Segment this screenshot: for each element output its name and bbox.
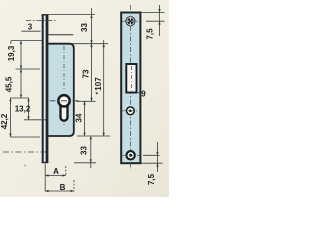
extension line stem bottom	[24, 119, 46, 121]
dim line 33 bottom (x=90.8)	[90, 136, 92, 168]
scan speck	[96, 92, 99, 94]
dim line 7.5 bottom	[157, 142, 159, 172]
dim line 34 (x=84.5)	[84, 101, 86, 136]
9 leader line	[137, 92, 142, 94]
right 7.5 bottom: extension lines	[143, 154, 160, 156]
svg-text:7,5: 7,5	[147, 173, 156, 185]
arrows left view dims	[90, 15, 92, 18]
top fixing hole centerline through faceplate (dash-dot)	[26, 20, 57, 22]
B dimension	[45, 190, 74, 192]
svg-text:19,3: 19,3	[7, 45, 16, 61]
case inner top edge (thin line above case top)	[47, 34, 74, 36]
extension line faceplate bottom right	[74, 162, 96, 164]
extension line y69 left (19.3 end)	[16, 68, 41, 70]
faceplate rear line	[46, 15, 49, 164]
euro cylinder profile (keyhole)	[57, 94, 71, 108]
top hole h-centerline	[122, 20, 139, 22]
dim line 107 (x=103.5)	[103, 40, 105, 136]
bottom fixing hole centerline through faceplate (dash-dot)	[3, 151, 46, 153]
svg-text:3: 3	[28, 22, 33, 31]
svg-text:107: 107	[94, 77, 103, 91]
extension line case bottom right	[77, 135, 110, 137]
extension line case top left	[11, 40, 43, 42]
extension line cylinder center right	[76, 100, 96, 102]
light strip above case top	[48, 36, 72, 43]
svg-text:9: 9	[141, 90, 146, 99]
right 7.5 top: extension lines	[141, 12, 165, 14]
dim line 33/73 (x=92)	[91, 8, 93, 101]
faceplate edge view (vertical bar)	[42, 15, 48, 164]
dim line 13.2 (x=28.5)	[28, 98, 30, 120]
dim 3 leader	[22, 30, 41, 32]
faceplate top cap	[42, 14, 49, 16]
svg-text:42,2: 42,2	[0, 113, 9, 129]
paper background	[0, 0, 169, 197]
svg-text:13,2: 13,2	[15, 105, 31, 114]
extension line case top right	[71, 43, 108, 45]
svg-text:7,5: 7,5	[146, 28, 155, 40]
bottom hole	[126, 151, 134, 159]
faceplate plate	[121, 13, 140, 164]
extension line cylinder center left	[10, 97, 29, 99]
dim line 42.2 (x=10.5)	[10, 98, 12, 137]
svg-text:33: 33	[79, 146, 88, 155]
extension line faceplate top	[46, 14, 95, 16]
dim line 7.5 top	[159, 5, 161, 36]
centerline inside cutout	[130, 66, 132, 91]
cylinder vertical centerline below	[63, 109, 65, 127]
svg-text:33: 33	[80, 23, 89, 32]
A dimension	[44, 164, 46, 192]
dim line 19.3/45.5 (x=21)	[20, 41, 22, 98]
small speck bottom left	[24, 165, 26, 167]
lock case (side view) body	[47, 44, 74, 136]
plate vertical centerline	[129, 5, 131, 170]
top screw hole	[126, 17, 135, 26]
faceplate bottom cap	[42, 162, 49, 164]
middle hole	[126, 107, 134, 115]
svg-text:73: 73	[81, 69, 90, 78]
latch cutout	[126, 64, 136, 93]
svg-text:B: B	[60, 183, 66, 192]
faceplate front line	[42, 15, 44, 164]
svg-text:45,5: 45,5	[5, 76, 14, 92]
extension line case bottom left	[11, 136, 41, 138]
svg-text:34: 34	[75, 113, 84, 122]
svg-text:A: A	[53, 167, 59, 176]
case vertical centerline (dash-dot)	[63, 46, 65, 91]
cylinder horizontal centerline (dash-dot)	[50, 100, 81, 102]
